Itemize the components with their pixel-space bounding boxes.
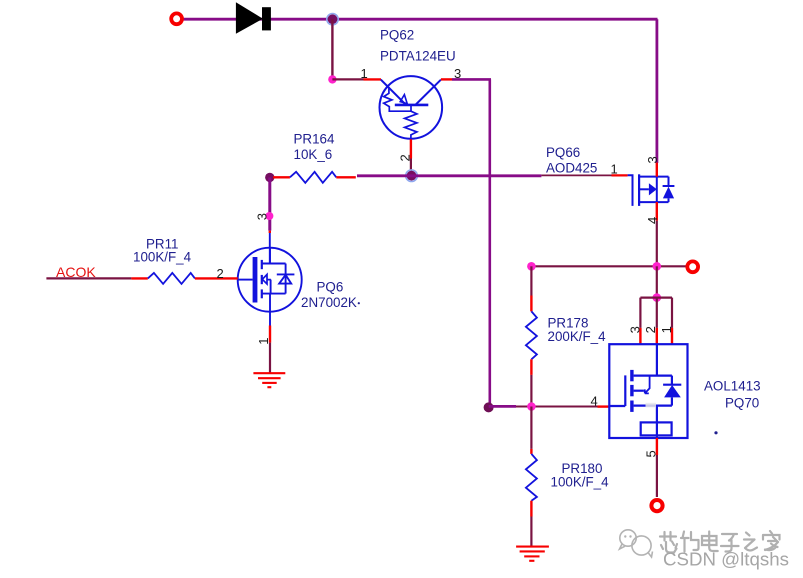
svg-text:200K/F_4: 200K/F_4: [548, 329, 607, 344]
junction dot gate node: [484, 402, 494, 412]
wire PQ62 pin3 to vertical: [452, 78, 491, 81]
watermark logo: [620, 530, 653, 557]
transistor PQ70 AOL1413 box: [609, 344, 687, 438]
wire PQ70 pin header loop: [640, 298, 672, 328]
pin 4 stub PQ70: [598, 405, 610, 407]
pin 1 stub PQ70: [671, 328, 673, 344]
wire PQ6 source to ground: [269, 343, 271, 373]
svg-text:3: 3: [255, 213, 270, 220]
svg-text:AOL1413: AOL1413: [704, 378, 761, 393]
node pink mid: [653, 262, 662, 271]
pin 3 stub PQ70: [639, 328, 641, 344]
pin 4 stub PQ66: [656, 202, 658, 221]
wire right drop from top rail to PQ66 pin 3: [656, 19, 659, 163]
svg-text:100K/F_4: 100K/F_4: [133, 250, 192, 265]
pin 5 stub PQ70: [656, 438, 658, 455]
wire vertical x=490 down to gate row: [488, 79, 491, 406]
node pink left (PR178 top): [527, 262, 536, 271]
wire pink dot to PQ62 pin 1: [332, 78, 363, 80]
pin 1 stub PQ6 (to ground): [269, 326, 271, 343]
wire top rail: [182, 18, 658, 21]
svg-text:2: 2: [643, 326, 658, 333]
watermark CJK text 芯片电子之家 (stroke imitation): [660, 531, 780, 553]
wire down to PQ70 pins: [656, 266, 658, 297]
artifact white patch on bottom tap: [646, 403, 657, 408]
pin 1 stub PQ62: [364, 78, 382, 80]
junction at diode output: [327, 14, 338, 25]
svg-text:2N7002K: 2N7002K: [301, 295, 357, 310]
ground (PR180 bottom): [516, 547, 549, 561]
svg-text:CSDN @ltqshs: CSDN @ltqshs: [663, 549, 789, 570]
resistor PR164: [265, 132, 356, 183]
svg-text:PQ6: PQ6: [317, 280, 344, 295]
tiny dot after 2N7002K: [358, 302, 360, 304]
transistor Q PQ62 body: [380, 76, 443, 139]
svg-text:1: 1: [659, 326, 674, 333]
svg-text:3: 3: [627, 326, 642, 333]
transistor PQ6 MOSFET: [238, 233, 302, 326]
transistor PQ66 MOSFET: [628, 174, 675, 206]
node pink on drain: [265, 212, 273, 220]
pin 2 stub PQ70: [656, 328, 658, 344]
wire PQ6 drain vertical (purple): [268, 177, 271, 230]
svg-text:3: 3: [645, 156, 660, 163]
node pin1 corner (pink): [328, 75, 336, 83]
resistor PR180: [526, 407, 609, 547]
pin 1 stub PQ66 gate: [612, 174, 628, 176]
wire PQ66 pin4 down: [656, 221, 658, 267]
wire mid horizontal node row: [531, 265, 686, 267]
svg-text:PQ62: PQ62: [380, 28, 414, 43]
pin 3 stub PQ62: [441, 78, 452, 80]
wire PQ62 pin2 to junction: [410, 159, 412, 174]
svg-text:4: 4: [591, 393, 598, 408]
wire from junction down to PQ62 pin1 row: [331, 19, 333, 79]
resistor PR178: [526, 266, 606, 406]
svg-text:1: 1: [361, 66, 368, 81]
junction dot at PQ62 pin2 node: [406, 170, 418, 182]
terminal TP2 right: [687, 261, 698, 272]
wire gate node horizontal (maroon part): [516, 406, 598, 408]
terminal TP1 top-left: [171, 13, 182, 24]
svg-text:AOD425: AOD425: [546, 161, 597, 176]
wire ACOK: [46, 277, 131, 279]
svg-text:PQ70: PQ70: [725, 395, 759, 410]
svg-text:10K_6: 10K_6: [294, 147, 333, 162]
pin 3 stub PQ6: [269, 231, 271, 233]
wire gate node horizontal (purple part): [489, 405, 516, 408]
svg-text:1: 1: [611, 162, 618, 177]
svg-text:PR164: PR164: [294, 132, 335, 147]
wire PQ70 pin5 to terminal: [656, 455, 658, 497]
resistor PR11: [131, 237, 237, 284]
tiny dot below PQ70 label: [714, 431, 717, 434]
svg-text:1: 1: [256, 337, 271, 344]
node pink (PR178 bottom): [527, 402, 536, 411]
diode D1: [236, 2, 271, 34]
wire horizontal gate net (purple): [357, 174, 541, 177]
pin 2 stub PQ62: [410, 139, 412, 158]
svg-text:2: 2: [217, 266, 224, 281]
svg-text:100K/F_4: 100K/F_4: [551, 475, 610, 490]
node pink at PQ70 top: [653, 293, 662, 302]
svg-text:PQ66: PQ66: [546, 145, 580, 160]
pin 3 stub PQ66: [656, 163, 658, 177]
wire horizontal to PQ66 gate (thin): [541, 174, 611, 176]
svg-text:PDTA124EU: PDTA124EU: [380, 49, 456, 64]
terminal TP3 bottom: [651, 500, 662, 511]
ground (PQ6 source): [253, 373, 285, 387]
